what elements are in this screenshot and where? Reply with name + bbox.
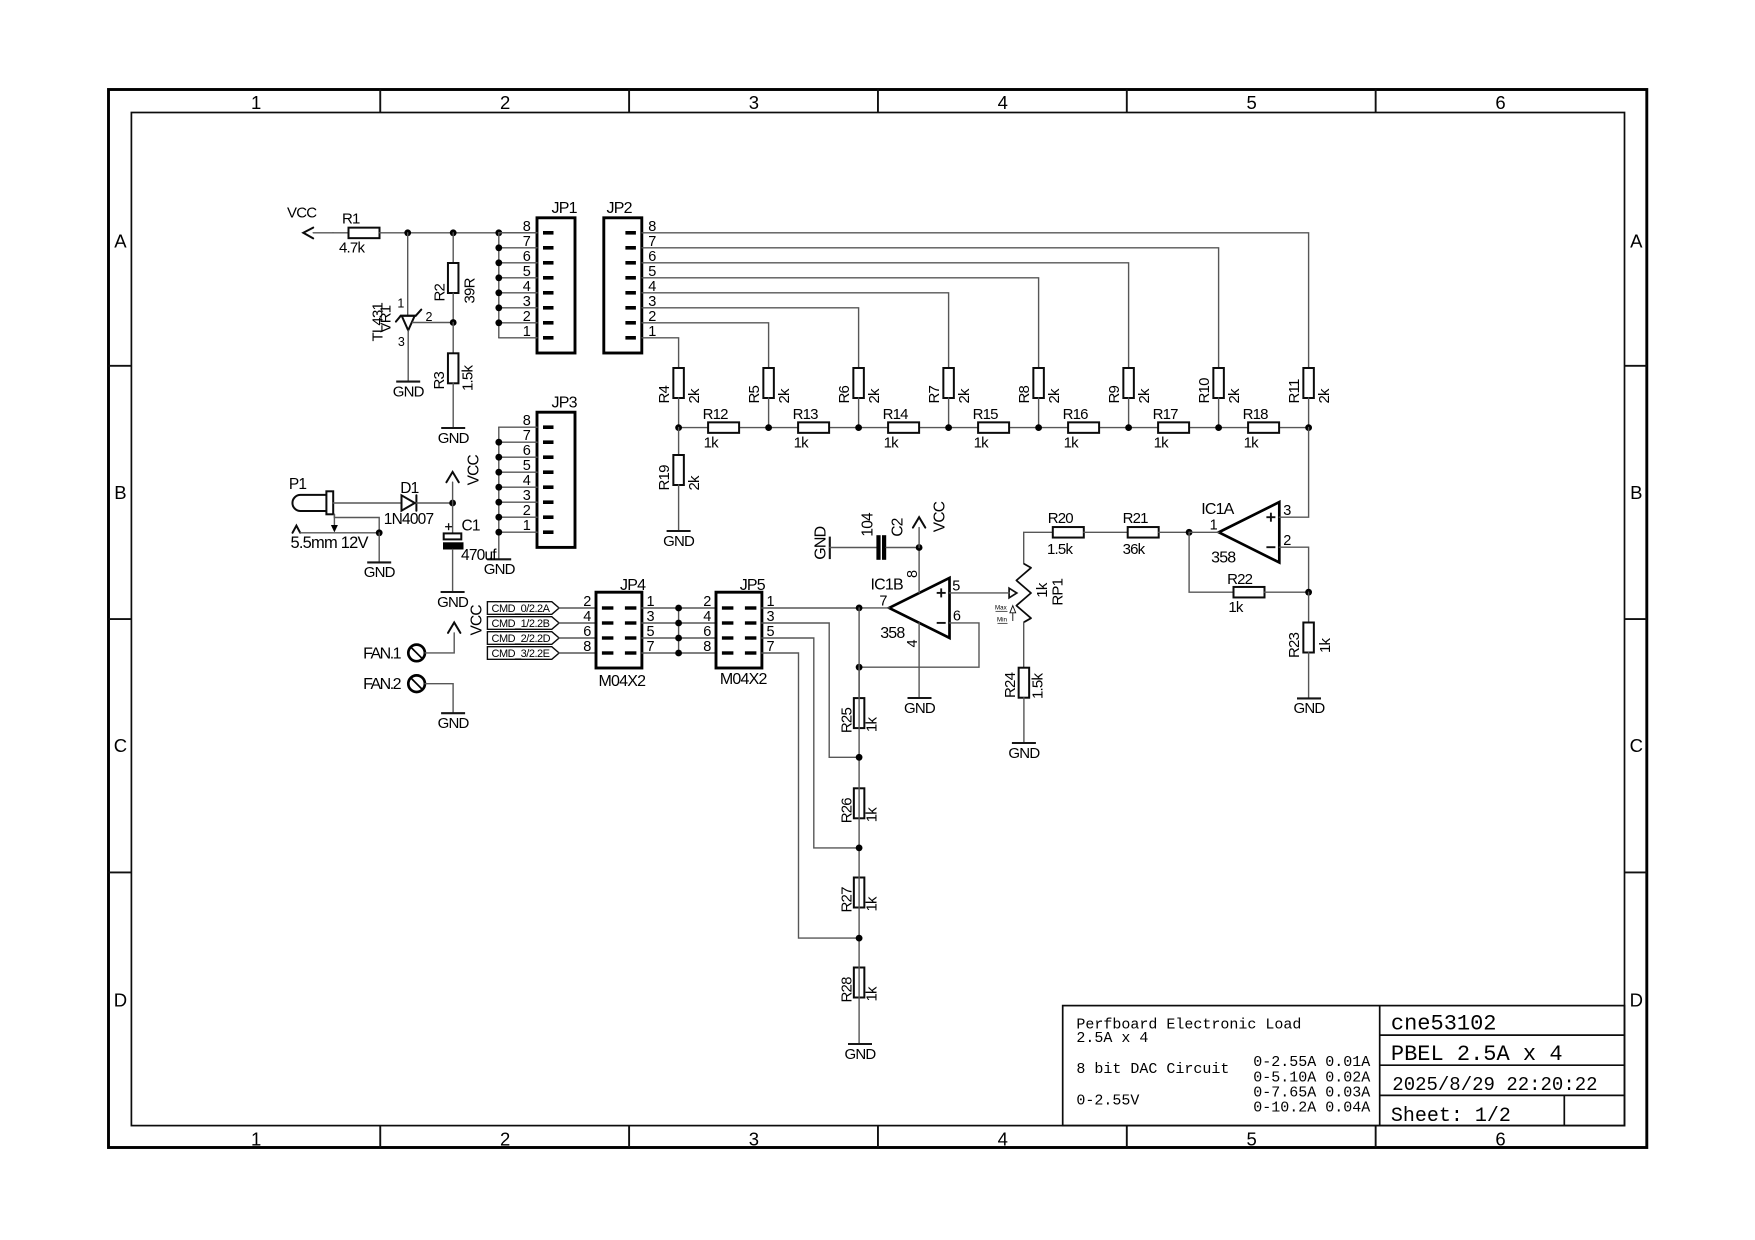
wire IC1B pin6 feedback loop xyxy=(859,623,979,667)
svg-text:2k: 2k xyxy=(1046,388,1063,404)
svg-text:GND: GND xyxy=(438,715,470,732)
svg-text:D: D xyxy=(114,990,127,1011)
resistor R1 4.7k xyxy=(333,211,380,257)
resistor R2 39R xyxy=(432,263,479,304)
wire R21 to IC1A node xyxy=(1159,531,1189,533)
svg-text:2: 2 xyxy=(500,1128,510,1149)
svg-text:IC1A: IC1A xyxy=(1201,501,1234,518)
svg-text:3: 3 xyxy=(749,1128,759,1149)
resistor R17 1k xyxy=(1153,406,1190,452)
drawing frame with grid labels xyxy=(109,90,1647,1150)
svg-text:2: 2 xyxy=(426,310,433,324)
wire C2 to VCC junction xyxy=(886,547,919,549)
wire ladder to IC1A pin3 xyxy=(1279,428,1308,518)
wire JP2 pin5 to R8 column xyxy=(642,278,1039,368)
svg-text:GND: GND xyxy=(437,594,469,611)
svg-text:CMD_0/2.2A: CMD_0/2.2A xyxy=(492,603,551,615)
ground under P1 xyxy=(364,562,396,581)
title block project name xyxy=(1391,1042,1563,1067)
resistor R27 1k xyxy=(839,878,881,913)
svg-text:6: 6 xyxy=(583,624,591,640)
svg-text:1k: 1k xyxy=(794,435,810,452)
svg-text:5: 5 xyxy=(952,578,960,594)
wire RP1 top to R20 xyxy=(1024,532,1053,563)
connector JP1 8-pin header xyxy=(523,200,578,353)
svg-text:1k: 1k xyxy=(1317,637,1334,653)
svg-text:2k: 2k xyxy=(686,475,703,491)
wire JP4 to JP5 row 3 xyxy=(642,637,716,639)
svg-text:2025/8/29 22:20:22: 2025/8/29 22:20:22 xyxy=(1392,1074,1597,1096)
wire R20 to R21 xyxy=(1084,531,1128,533)
svg-text:R27: R27 xyxy=(839,887,856,913)
svg-text:R26: R26 xyxy=(839,798,856,824)
svg-text:8: 8 xyxy=(703,639,711,655)
junction R22/R23/pin2 xyxy=(1305,589,1312,596)
svg-text:R17: R17 xyxy=(1153,406,1179,423)
wire IC1A output to node xyxy=(1189,531,1219,533)
wire R23 to ground xyxy=(1308,653,1310,699)
junction chain node xyxy=(856,935,863,942)
wire JP5 pin1 to IC1B input node xyxy=(762,607,859,609)
wire R7 to ladder node xyxy=(948,398,950,428)
svg-text:1k: 1k xyxy=(704,435,720,452)
ground under R23 xyxy=(1294,698,1326,717)
svg-text:1k: 1k xyxy=(974,435,990,452)
svg-text:2k: 2k xyxy=(1136,388,1153,404)
svg-text:5: 5 xyxy=(1246,92,1256,113)
svg-text:1k: 1k xyxy=(884,435,900,452)
diode D1 1N4007 xyxy=(384,480,434,528)
svg-text:358: 358 xyxy=(880,625,905,642)
wire JP4 to JP5 row 2 xyxy=(642,622,716,624)
junction chain node xyxy=(856,845,863,852)
ground under R19 xyxy=(663,531,695,550)
power flag VCC above C2 node xyxy=(913,501,949,547)
net label flag CMD_0/2.2A xyxy=(487,602,559,616)
junction chain node xyxy=(856,754,863,761)
svg-text:D1: D1 xyxy=(400,480,418,497)
capacitor C2 104 xyxy=(860,512,907,560)
svg-text:8 bit DAC Circuit: 8 bit DAC Circuit xyxy=(1076,1061,1229,1078)
svg-text:6: 6 xyxy=(703,624,711,640)
ground left of C2 (rotated) xyxy=(813,526,877,559)
P1 switch pin arrow xyxy=(331,514,338,532)
svg-text:3: 3 xyxy=(1283,503,1291,519)
svg-text:R11: R11 xyxy=(1286,379,1303,403)
svg-text:GND: GND xyxy=(1294,700,1326,717)
wire FAN.2 to ground xyxy=(425,684,453,714)
svg-text:GND: GND xyxy=(904,700,936,717)
wire JP2 pin1 to R4 column xyxy=(642,338,679,368)
svg-text:B: B xyxy=(114,482,126,503)
svg-text:R15: R15 xyxy=(973,406,999,423)
ground under C1 xyxy=(437,592,469,611)
svg-text:cne53102: cne53102 xyxy=(1391,1012,1497,1037)
svg-text:470uf: 470uf xyxy=(461,547,497,564)
resistor R23 1k xyxy=(1286,623,1334,659)
svg-text:1k: 1k xyxy=(1228,599,1244,616)
resistor R19 2k xyxy=(656,455,703,491)
svg-text:R4: R4 xyxy=(656,385,673,403)
ground under R24 xyxy=(1008,743,1040,762)
svg-text:358: 358 xyxy=(1211,550,1236,567)
wire CMD_3/2.2E to JP4 xyxy=(559,652,596,654)
junction ladder node 6 xyxy=(1125,424,1132,431)
svg-text:C2: C2 xyxy=(890,518,907,536)
junction ladder node 8 xyxy=(1305,424,1312,431)
svg-text:Min: Min xyxy=(997,617,1008,624)
resistor R10 2k xyxy=(1196,368,1243,404)
svg-text:P1: P1 xyxy=(289,476,307,493)
svg-text:104: 104 xyxy=(860,512,877,537)
ground under IC1B pin4 xyxy=(904,698,936,717)
ground under R3 xyxy=(438,428,470,447)
power flag VCC above D1 node xyxy=(446,454,482,503)
svg-text:CMD_2/2.2D: CMD_2/2.2D xyxy=(492,633,551,645)
wire node to R3 xyxy=(452,323,454,354)
svg-text:7: 7 xyxy=(879,593,887,609)
resistor R7 2k xyxy=(926,368,973,404)
net label flag CMD_2/2.2D xyxy=(487,632,559,646)
pin FAN.1 xyxy=(363,645,425,663)
resistor R28 1k xyxy=(839,968,881,1003)
svg-text:1k: 1k xyxy=(864,807,881,823)
svg-text:GND: GND xyxy=(393,383,425,400)
svg-text:R20: R20 xyxy=(1048,510,1074,527)
wire CMD_2/2.2D to JP4 xyxy=(559,637,596,639)
svg-text:2k: 2k xyxy=(1226,388,1243,404)
svg-text:1k: 1k xyxy=(864,986,881,1002)
svg-text:JP2: JP2 xyxy=(607,200,633,217)
wire RP1 to R24 xyxy=(1023,622,1025,667)
wire CMD_0/2.2A to JP4 xyxy=(559,607,596,609)
svg-text:4: 4 xyxy=(998,92,1008,113)
svg-text:R14: R14 xyxy=(883,406,909,423)
svg-text:5.5mm 12V: 5.5mm 12V xyxy=(291,534,369,552)
junction JP4/JP5 tie xyxy=(675,635,682,642)
wire R25 chain xyxy=(858,667,860,1044)
svg-text:VCC: VCC xyxy=(469,605,486,636)
svg-text:6: 6 xyxy=(1495,1128,1505,1149)
junction ladder node 7 xyxy=(1215,424,1222,431)
resistor R6 2k xyxy=(836,368,883,404)
wire IC1B pin4 to ground xyxy=(918,623,920,698)
wire JP5 pin3 to R25/R26 node xyxy=(762,623,859,757)
svg-text:R5: R5 xyxy=(746,385,763,403)
svg-text:R1: R1 xyxy=(342,211,360,228)
svg-text:1.5k: 1.5k xyxy=(1047,541,1073,558)
svg-text:36k: 36k xyxy=(1123,541,1146,558)
svg-text:JP5: JP5 xyxy=(740,577,766,594)
wire IC1B pin8 to VCC node xyxy=(918,548,920,593)
svg-text:1.5k: 1.5k xyxy=(460,365,477,391)
wire IC1B output to node xyxy=(859,607,889,609)
wire ladder node to R19 xyxy=(678,428,680,455)
net label flag CMD_1/2.2B xyxy=(487,617,559,631)
wire FAN.1 to VCC xyxy=(425,633,454,653)
svg-text:R13: R13 xyxy=(793,406,819,423)
svg-text:6: 6 xyxy=(1495,92,1505,113)
svg-text:2: 2 xyxy=(703,594,711,610)
svg-text:GND: GND xyxy=(813,526,830,559)
svg-text:JP3: JP3 xyxy=(552,395,578,412)
svg-text:R28: R28 xyxy=(839,977,856,1003)
junction at R2 branch xyxy=(450,229,457,236)
wire R3 to ground xyxy=(452,383,454,428)
wire JP2 pin3 to R6 column xyxy=(642,308,859,368)
connector JP4 M04X2 xyxy=(583,577,654,690)
resistor R26 1k xyxy=(839,788,881,823)
svg-text:VCC: VCC xyxy=(932,501,949,532)
ground under R28 xyxy=(845,1044,877,1063)
svg-text:R24: R24 xyxy=(1002,672,1019,698)
ground under FAN.2 xyxy=(438,713,470,732)
junction ladder node 3 xyxy=(855,424,862,431)
svg-text:RP1: RP1 xyxy=(1049,578,1066,605)
connector JP5 M04X2 xyxy=(703,577,774,688)
svg-text:R6: R6 xyxy=(836,385,853,403)
svg-text:C: C xyxy=(1630,735,1643,756)
svg-text:M04X2: M04X2 xyxy=(720,671,768,688)
svg-text:A: A xyxy=(1630,231,1643,252)
svg-text:1: 1 xyxy=(397,297,404,311)
svg-text:CMD_1/2.2B: CMD_1/2.2B xyxy=(492,618,550,630)
svg-text:R12: R12 xyxy=(703,406,729,423)
svg-text:R22: R22 xyxy=(1227,571,1253,588)
pin FAN.2 xyxy=(363,675,425,692)
svg-text:Max: Max xyxy=(995,605,1008,612)
junction at JP1 bus xyxy=(495,229,502,236)
svg-text:2: 2 xyxy=(1283,533,1291,549)
wire JP2 pin2 to R5 column xyxy=(642,323,769,368)
wire bus tying JP1 pins 1-8 xyxy=(495,233,537,338)
resistor R21 36k xyxy=(1123,510,1159,558)
svg-text:R10: R10 xyxy=(1196,378,1213,404)
svg-text:R23: R23 xyxy=(1286,632,1303,658)
wire JP4 to JP5 row 1 xyxy=(642,607,716,609)
net label flag CMD_3/2.2E xyxy=(487,647,559,661)
label 5.5mm 12V xyxy=(291,534,369,552)
wire node to R22 xyxy=(1189,532,1233,592)
svg-text:R8: R8 xyxy=(1016,385,1033,403)
junction JP4/JP5 tie xyxy=(675,650,682,657)
resistor R3 1.5k xyxy=(431,353,476,391)
svg-text:IC1B: IC1B xyxy=(871,576,903,593)
wire output node down chain xyxy=(858,608,860,698)
svg-text:1k: 1k xyxy=(864,896,881,912)
wire R10 to ladder node xyxy=(1218,398,1220,428)
svg-text:C1: C1 xyxy=(462,518,480,535)
wire node to R23 xyxy=(1308,592,1310,622)
svg-text:4: 4 xyxy=(703,609,711,625)
svg-text:5: 5 xyxy=(1246,1128,1256,1149)
wire JP5 pin7 to R27/R28 node xyxy=(762,653,859,938)
connector JP2 8-pin header xyxy=(604,200,657,353)
op-amp IC1B 358 xyxy=(871,570,961,648)
resistor R8 2k xyxy=(1016,368,1063,404)
wire VCC arrow to R1 xyxy=(313,232,333,234)
power flag VCC (left arrow at R1) xyxy=(287,205,317,239)
junction IC1A inverting node xyxy=(1186,529,1193,536)
wire IC1B pin5 to RP1 wiper xyxy=(950,592,1010,594)
wire JP2 pin8 to R11 column xyxy=(642,233,1309,368)
wire JP4 to JP5 row 4 xyxy=(642,652,716,654)
junction ladder node 2 xyxy=(765,424,772,431)
svg-text:2k: 2k xyxy=(866,388,883,404)
resistor R14 1k xyxy=(883,406,920,452)
svg-text:A: A xyxy=(114,231,127,252)
shunt regulator VR1 TL431 xyxy=(369,233,432,381)
wire JP2 pin6 to R9 column xyxy=(642,263,1129,368)
svg-text:1.5k: 1.5k xyxy=(1030,673,1047,699)
connector P1 barrel jack 5.5mm xyxy=(289,476,333,514)
junction VR1/R2/R3 xyxy=(450,319,457,326)
svg-text:2k: 2k xyxy=(776,388,793,404)
svg-text:1N4007: 1N4007 xyxy=(384,511,434,528)
wire tying JP4/JP5 rows xyxy=(678,608,680,653)
wire R4 to ladder node xyxy=(678,398,680,428)
svg-text:2k: 2k xyxy=(1316,388,1333,404)
svg-text:2: 2 xyxy=(500,92,510,113)
junction IC1B output node xyxy=(856,605,863,612)
svg-text:Sheet: 1/2: Sheet: 1/2 xyxy=(1391,1105,1511,1128)
svg-text:VCC: VCC xyxy=(287,205,317,222)
svg-text:2.5A x 4: 2.5A x 4 xyxy=(1076,1030,1148,1047)
wire JP2 pin7 to R10 column xyxy=(642,248,1219,368)
svg-text:JP4: JP4 xyxy=(620,577,646,594)
junction ladder node 4 xyxy=(945,424,952,431)
svg-text:8: 8 xyxy=(583,639,591,655)
connector JP3 8-pin header xyxy=(523,395,578,548)
svg-text:1k: 1k xyxy=(1154,435,1170,452)
svg-text:D: D xyxy=(1630,990,1643,1011)
svg-text:R18: R18 xyxy=(1243,406,1269,423)
svg-text:JP1: JP1 xyxy=(552,200,578,217)
resistor R12 1k xyxy=(703,406,740,452)
junction P1 ground node xyxy=(376,529,383,536)
svg-text:R3: R3 xyxy=(431,371,448,389)
svg-text:R7: R7 xyxy=(926,385,943,403)
junction JP4/JP5 tie xyxy=(675,605,682,612)
wire R8 to ladder node xyxy=(1038,398,1040,428)
svg-text:1: 1 xyxy=(251,92,261,113)
ground under VR1 xyxy=(393,382,425,401)
svg-text:GND: GND xyxy=(364,564,396,581)
svg-text:2k: 2k xyxy=(956,388,973,404)
wire IC1A pin2 to R22/R23 node xyxy=(1279,547,1308,592)
junction JP4/JP5 tie xyxy=(675,620,682,627)
svg-text:1: 1 xyxy=(1210,518,1218,534)
svg-text:FAN.1: FAN.1 xyxy=(363,645,402,662)
resistor R11 2k xyxy=(1286,368,1333,404)
svg-text:M04X2: M04X2 xyxy=(599,673,647,690)
junction VCC node at C1 xyxy=(449,500,456,507)
power flag VCC above FAN.1 xyxy=(448,605,486,636)
wire R24 to ground xyxy=(1023,698,1025,743)
wire D1 to VCC node xyxy=(416,502,452,504)
title block document name xyxy=(1391,1012,1497,1037)
title block date xyxy=(1392,1074,1597,1096)
svg-text:2: 2 xyxy=(583,594,591,610)
svg-text:GND: GND xyxy=(1008,745,1040,762)
junction ladder node 1 xyxy=(675,424,682,431)
svg-text:FAN.2: FAN.2 xyxy=(363,676,402,693)
svg-text:R25: R25 xyxy=(839,708,856,734)
title block description text xyxy=(1076,1016,1370,1116)
svg-text:6: 6 xyxy=(953,608,961,624)
wire CMD_1/2.2B to JP4 xyxy=(559,622,596,624)
op-amp IC1A 358 xyxy=(1201,501,1291,567)
svg-text:R16: R16 xyxy=(1063,406,1089,423)
wire P1 sleeve to node xyxy=(334,514,379,533)
wire R22 to node xyxy=(1265,591,1309,593)
resistor R18 1k xyxy=(1243,406,1280,452)
svg-text:PBEL 2.5A x 4: PBEL 2.5A x 4 xyxy=(1391,1042,1563,1067)
svg-text:3: 3 xyxy=(398,335,405,349)
potentiometer RP1 1k xyxy=(995,564,1066,624)
resistor R13 1k xyxy=(793,406,830,452)
resistor R20 1.5k xyxy=(1047,510,1084,558)
svg-text:0-2.55V: 0-2.55V xyxy=(1076,1093,1139,1110)
wire R19 to ground xyxy=(678,485,680,531)
svg-text:CMD_3/2.2E: CMD_3/2.2E xyxy=(492,648,550,660)
wire R2 to node xyxy=(452,293,454,322)
svg-text:1k: 1k xyxy=(1064,435,1080,452)
wire node to ground xyxy=(378,533,380,563)
svg-text:2k: 2k xyxy=(686,388,703,404)
svg-text:1k: 1k xyxy=(864,717,881,733)
svg-text:0-10.2A 0.04A: 0-10.2A 0.04A xyxy=(1253,1100,1370,1117)
svg-text:1k: 1k xyxy=(1244,435,1260,452)
svg-text:R21: R21 xyxy=(1123,510,1149,527)
svg-text:GND: GND xyxy=(438,430,470,447)
resistor R16 1k xyxy=(1063,406,1100,452)
wire VR1 pin2 to R2/R3 node xyxy=(413,322,454,324)
svg-text:VCC: VCC xyxy=(466,454,483,485)
resistor R22 1k xyxy=(1227,571,1264,616)
svg-text:39R: 39R xyxy=(462,277,479,303)
svg-text:R19: R19 xyxy=(656,465,673,491)
junction ladder node 5 xyxy=(1035,424,1042,431)
junction at VR1 branch xyxy=(404,229,411,236)
svg-text:GND: GND xyxy=(663,533,695,550)
title block sheet xyxy=(1391,1105,1511,1128)
wire bus tying JP3 pins to ground xyxy=(495,427,537,559)
svg-text:GND: GND xyxy=(845,1046,877,1063)
resistor R15 1k xyxy=(973,406,1010,452)
resistor R4 2k xyxy=(656,368,703,404)
resistor R5 2k xyxy=(746,368,793,404)
wire R11 to ladder node xyxy=(1308,398,1310,428)
svg-text:R9: R9 xyxy=(1106,385,1123,403)
wire JP5 pin5 to R26/R27 node xyxy=(762,638,859,848)
svg-text:1: 1 xyxy=(251,1128,261,1149)
wire JP2 pin4 to R7 column xyxy=(642,293,949,368)
svg-text:4.7k: 4.7k xyxy=(339,240,365,257)
ground under JP3 bus xyxy=(484,559,516,578)
junction VCC at IC1B pin8 xyxy=(916,544,923,551)
svg-text:4: 4 xyxy=(583,609,591,625)
resistor R24 1.5k xyxy=(1002,668,1047,699)
wire R9 to ladder node xyxy=(1128,398,1130,428)
resistor R9 2k xyxy=(1106,368,1153,404)
wire ladder summing row xyxy=(679,427,1309,429)
svg-text:C: C xyxy=(114,735,127,756)
wire node to R2 xyxy=(452,233,454,263)
capacitor C1 470uf polarized xyxy=(443,503,497,592)
P1 pin marker caret and wire to node xyxy=(293,526,380,533)
wire R5 to ladder node xyxy=(768,398,770,428)
